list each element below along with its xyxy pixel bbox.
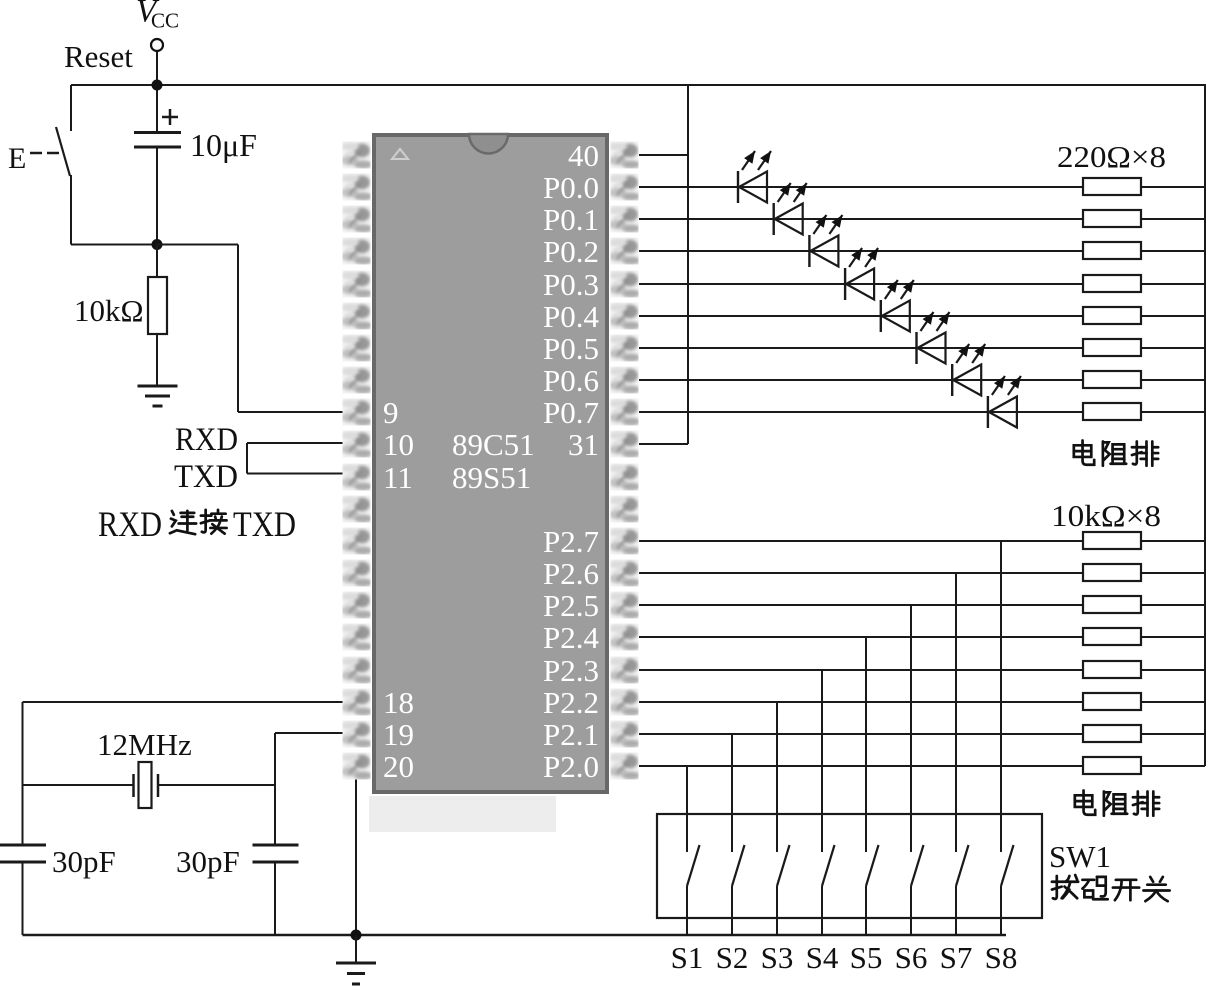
- svg-text:P0.4: P0.4: [543, 299, 599, 334]
- svg-text:P2.5: P2.5: [543, 588, 599, 623]
- svg-text:S4: S4: [806, 940, 839, 975]
- svg-text:CC: CC: [151, 9, 179, 33]
- svg-text:30pF: 30pF: [176, 844, 240, 879]
- svg-text:P0.0: P0.0: [543, 170, 599, 205]
- svg-text:P2.4: P2.4: [543, 620, 599, 655]
- svg-text:89S51: 89S51: [452, 460, 531, 495]
- svg-text:19: 19: [383, 717, 414, 752]
- svg-text:18: 18: [383, 685, 414, 720]
- svg-text:31: 31: [568, 427, 599, 462]
- svg-text:S6: S6: [895, 940, 928, 975]
- svg-text:10μF: 10μF: [190, 127, 257, 163]
- svg-text:P2.7: P2.7: [543, 524, 599, 559]
- svg-text:RXD: RXD: [98, 504, 162, 544]
- svg-text:9: 9: [383, 395, 399, 430]
- svg-text:10kΩ×8: 10kΩ×8: [1051, 498, 1161, 533]
- svg-text:S7: S7: [940, 940, 973, 975]
- svg-text:P0.2: P0.2: [543, 234, 599, 269]
- svg-text:P0.3: P0.3: [543, 267, 599, 302]
- svg-text:12MHz: 12MHz: [97, 727, 192, 762]
- svg-text:S1: S1: [671, 940, 704, 975]
- svg-text:P2.1: P2.1: [543, 717, 599, 752]
- svg-text:89C51: 89C51: [452, 427, 535, 462]
- svg-text:40: 40: [568, 138, 599, 173]
- svg-text:P2.3: P2.3: [543, 653, 599, 688]
- svg-text:P0.6: P0.6: [543, 363, 599, 398]
- svg-text:Reset: Reset: [64, 39, 133, 74]
- svg-text:20: 20: [383, 749, 414, 784]
- svg-text:P2.2: P2.2: [543, 685, 599, 720]
- svg-text:10: 10: [383, 427, 414, 462]
- svg-text:S5: S5: [850, 940, 883, 975]
- svg-text:30pF: 30pF: [52, 844, 116, 879]
- svg-text:P2.6: P2.6: [543, 556, 599, 591]
- svg-text:11: 11: [383, 460, 413, 495]
- svg-text:S8: S8: [985, 940, 1018, 975]
- svg-text:P0.1: P0.1: [543, 202, 599, 237]
- svg-text:SW1: SW1: [1049, 839, 1111, 874]
- svg-text:RXD: RXD: [175, 422, 238, 458]
- svg-text:TXD: TXD: [233, 504, 296, 544]
- svg-text:P0.7: P0.7: [543, 395, 599, 430]
- svg-text:TXD: TXD: [174, 459, 238, 495]
- svg-text:S2: S2: [716, 940, 749, 975]
- svg-text:220Ω×8: 220Ω×8: [1057, 139, 1166, 174]
- svg-text:P0.5: P0.5: [543, 331, 599, 366]
- svg-text:E: E: [8, 142, 26, 175]
- svg-text:S3: S3: [761, 940, 794, 975]
- svg-text:P2.0: P2.0: [543, 749, 599, 784]
- svg-text:10kΩ: 10kΩ: [74, 293, 144, 328]
